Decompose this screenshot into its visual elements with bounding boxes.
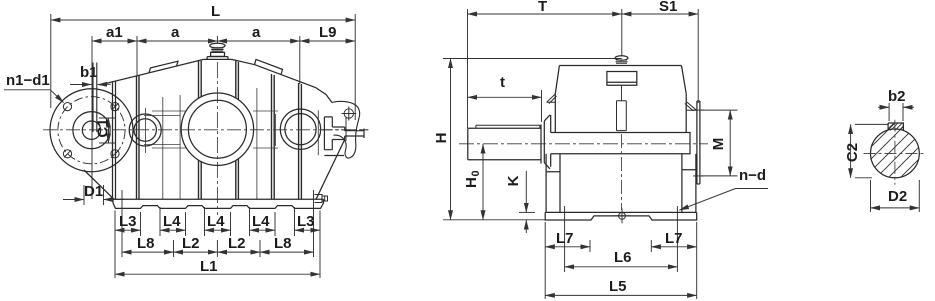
svg-text:L5: L5 [609,278,627,295]
right section centerlines [864,120,927,185]
lug web line [345,118,347,142]
bottom dims left view [115,190,320,278]
top corners sloped [555,66,686,94]
bolt hole bottom-left [63,150,71,158]
svg-text:n1−d1: n1−d1 [6,72,50,89]
dim a line 2 [217,40,299,42]
horizontal centerline [43,129,368,131]
shaft end stub [345,129,364,139]
dim a1/a/a/L9 extension lines [91,36,93,199]
lug hole crossed circle [342,107,357,121]
dim L9 line [300,40,355,42]
svg-text:D2: D2 [888,188,907,205]
keyway hatch [889,123,904,131]
svg-text:0: 0 [470,170,482,176]
shaft section circle [871,129,920,178]
shaft step2 [332,127,344,140]
svg-text:L3: L3 [297,213,315,230]
main gear circle [181,93,253,165]
row1 ticks [115,207,320,278]
svg-text:L3: L3 [119,213,137,230]
roof apex steps [204,57,232,60]
circles left view [50,89,321,172]
side cover plate [697,101,700,184]
L1 dim line [115,273,320,275]
svg-text:L9: L9 [319,24,337,41]
bolt hole top-left [63,103,71,111]
svg-text:L4: L4 [252,213,270,230]
svg-text:t: t [500,74,505,91]
D2 dim [871,207,920,209]
dim L5 [545,294,697,296]
middle view centerlines [459,134,708,210]
svg-text:L: L [211,3,220,20]
svg-text:a: a [171,24,180,41]
n1-d1 leader [4,90,64,103]
dim L7 left [545,246,590,248]
svg-text:L2: L2 [182,235,200,252]
rib pair x200 [199,61,202,200]
bearing boss verticals [163,88,257,199]
svg-text:M: M [710,138,727,151]
svg-text:a: a [252,24,261,41]
centerlines left view [43,62,368,215]
gusset flange to base [84,170,114,199]
top ref line [443,58,622,60]
row2 dim lines [122,251,174,253]
vertical centerline main [216,62,218,215]
rib pair x237 [236,61,239,199]
D1 dimension [63,185,125,205]
svg-text:n−d: n−d [739,167,766,184]
svg-text:b1: b1 [80,64,98,81]
drain plug [315,195,328,203]
base left view [113,198,324,200]
upper walls [555,94,686,133]
shaft key line [476,125,540,128]
svg-text:L6: L6 [614,249,632,266]
dim L extension lines [50,14,52,108]
anchor bolt symbol [613,209,631,224]
row2 ticks [122,190,314,257]
right wall diagonal [316,140,345,200]
svg-text:L1: L1 [200,258,218,275]
b1 keyway lines [93,63,97,133]
left wall [113,81,116,199]
dim T [468,13,622,15]
shaft step1 [324,117,344,156]
C2 ext lines [855,124,888,177]
flange boss circle [73,112,110,149]
breather plug left view [210,43,225,56]
top cap [559,65,681,67]
base middle view [545,211,697,213]
flange bolt circle dashed [58,97,125,164]
svg-text:L8: L8 [274,235,292,252]
shaft centerline [322,129,369,131]
dim S1 [622,13,698,15]
dim L6 [565,266,678,268]
circle2 bearing [129,114,161,146]
tick verticals output area [275,110,318,155]
svg-text:H: H [433,133,450,144]
dim H0 [482,144,484,220]
dim a line [137,40,217,42]
svg-text:L2: L2 [228,235,246,252]
rib pair x273 [272,74,275,199]
svg-text:D1: D1 [84,183,103,200]
roof rib tab left [149,61,178,73]
lifting hook lug [332,101,360,158]
bottom ticks middle [545,206,697,299]
b2 ext lines [889,103,903,121]
inspection cover [607,72,637,86]
svg-text:L4: L4 [163,213,181,230]
svg-text:T: T [538,0,547,15]
svg-text:C1: C1 [95,118,112,137]
input shaft [468,125,541,164]
vertical centerline circle2 [145,108,147,153]
housing outline left view [84,43,345,208]
shaft boss [544,115,550,169]
flange outer circle [50,89,133,172]
lower body walls [546,154,560,213]
svg-text:L4: L4 [207,213,225,230]
dim L line [51,19,355,21]
dim a1 line [92,40,137,42]
roof right slope [232,59,333,102]
center vertical line [621,85,623,101]
right section dims [851,103,920,212]
rib pair x137 [137,75,140,199]
n-d leader [736,188,769,190]
svg-text:H: H [463,177,480,188]
right gusset [685,102,697,112]
dipstick rod [617,101,627,131]
flange band [551,133,690,154]
dim M [701,110,738,176]
b2 arrows [878,106,889,108]
dim H [450,59,452,220]
dim L7 right [651,246,696,248]
svg-text:K: K [505,175,522,186]
roof rib tab right [255,59,283,74]
cap split lines [144,111,278,148]
dim t [468,96,542,98]
left gusset [547,94,557,104]
input shaft circle [82,121,100,139]
svg-text:L7: L7 [556,230,574,247]
bolt hole bottom-right [111,150,119,158]
bolt hole top-right [111,103,119,111]
b1 arrows [70,83,111,85]
C1 dimension [99,118,116,143]
svg-text:b2: b2 [888,88,906,105]
rib pair x300 [299,83,302,199]
output bearing circle [280,109,320,149]
svg-text:S1: S1 [659,0,677,15]
breather middle [615,56,628,64]
dim K [519,211,535,213]
T S1 extension lines [468,9,699,128]
D2 ext lines [871,180,920,212]
middle view housing [468,56,705,224]
svg-text:a1: a1 [106,24,123,41]
keyway block [888,123,903,131]
ground ext line [443,219,545,221]
shaft centerline [459,143,708,145]
C2 dim [850,124,852,177]
svg-text:C2: C2 [844,143,861,162]
vertical centerline body [621,134,623,210]
plate bolt ticks [693,110,705,176]
svg-text:L8: L8 [137,235,155,252]
roof left slope [100,59,204,85]
output shaft right side [322,101,369,158]
row1 dim lines [115,229,141,231]
svg-text:L7: L7 [665,230,683,247]
